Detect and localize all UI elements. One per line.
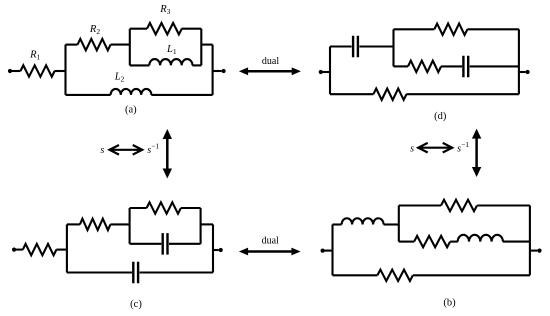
arrow: s to s^-1 (right)	[418, 143, 452, 153]
wire: bottom branch of (a)	[66, 94, 111, 96]
wire	[406, 93, 519, 95]
inductor L1	[149, 59, 192, 65]
inductor (middle branch of b)	[458, 235, 503, 242]
svg-text:R2: R2	[89, 24, 100, 36]
arrow: dual between (a) and (d)	[246, 70, 294, 73]
wire	[201, 44, 212, 46]
wire	[470, 65, 519, 67]
arrow: transform between (a) and (c)	[166, 137, 169, 171]
svg-text:(d): (d)	[434, 111, 447, 122]
resistor (series input of c)	[23, 244, 57, 255]
wire	[130, 64, 150, 66]
wire: R/C loop right edge	[200, 208, 202, 244]
wire	[321, 71, 330, 73]
wire	[14, 249, 23, 251]
wire: R3/L1 loop left edge	[129, 29, 131, 66]
resistor (bottom branch of d)	[373, 89, 406, 100]
svg-text:L2: L2	[114, 72, 125, 84]
wire: right rail of (a)	[212, 45, 214, 95]
svg-text:L1: L1	[166, 44, 177, 56]
arrow: transform between (d) and (b)	[475, 137, 478, 169]
wire	[192, 64, 201, 66]
wire	[323, 250, 333, 252]
resistor (in R/C loop of c)	[147, 202, 181, 213]
inductor (top branch of b)	[342, 218, 384, 224]
wire: right rail of (d)	[518, 29, 520, 94]
resistor (upper branch of b)	[441, 200, 477, 211]
wire	[111, 44, 130, 46]
wire	[330, 45, 352, 47]
wire: right rail of (c)	[212, 224, 214, 272]
resistor (upper branch of d)	[434, 24, 467, 35]
resistor (middle branch of b)	[414, 236, 450, 247]
terminal: left node of circuit (d)	[319, 70, 323, 74]
wire	[130, 243, 162, 245]
wire	[333, 223, 342, 225]
wire	[55, 70, 66, 72]
wire: left rail of (c)	[66, 224, 68, 272]
svg-text:(a): (a)	[125, 105, 137, 116]
wire	[384, 223, 399, 225]
wire	[399, 204, 441, 206]
resistor (bottom branch of b)	[377, 270, 412, 281]
wire	[530, 250, 538, 252]
svg-text:(c): (c)	[130, 299, 142, 310]
wire	[140, 271, 213, 273]
resistor R3	[147, 23, 182, 34]
wire	[213, 249, 219, 251]
wire	[130, 28, 147, 30]
wire	[394, 65, 409, 67]
wire: middle rail of (d)	[392, 29, 394, 66]
wire	[182, 28, 202, 30]
wire	[413, 274, 530, 276]
resistor R2	[78, 39, 111, 50]
svg-text:(b): (b)	[443, 298, 456, 309]
wire	[399, 241, 414, 243]
terminal: right node of circuit (c)	[219, 248, 223, 252]
wire: middle rail of (b)	[398, 206, 400, 242]
inductor L2	[111, 89, 152, 95]
svg-text:s−1: s−1	[147, 142, 159, 157]
svg-text:dual: dual	[262, 56, 279, 67]
wire	[56, 249, 67, 251]
terminal: left node of circuit (a)	[8, 69, 12, 73]
wire: bottom branch of (c)	[67, 271, 132, 273]
wire: left rail of (a)	[64, 45, 66, 95]
wire	[169, 243, 201, 245]
terminal: right node of circuit (d)	[526, 70, 530, 74]
wire	[394, 28, 435, 30]
wire: left rail of (b)	[331, 225, 333, 276]
resistor (top branch of c)	[80, 219, 110, 230]
arrow: s to s^-1 (left)	[110, 145, 143, 155]
wire	[66, 44, 78, 46]
wire: right rail of (b)	[529, 206, 531, 276]
wire	[151, 94, 212, 96]
wire: R/C loop left edge	[129, 208, 131, 244]
wire	[359, 45, 393, 47]
capacitor C1 (top left of d)	[353, 36, 358, 57]
wire	[110, 223, 129, 225]
wire	[181, 207, 201, 209]
wire	[441, 65, 462, 67]
resistor (middle branch of d)	[408, 61, 441, 72]
wire: R3/L1 loop right edge	[200, 29, 202, 66]
capacitor (bottom branch of c)	[133, 262, 138, 283]
wire	[130, 207, 147, 209]
capacitor C2 (middle branch of d)	[463, 56, 468, 77]
arrow: dual between (c) and (b)	[246, 250, 293, 253]
svg-text:dual: dual	[262, 236, 279, 247]
svg-text:s: s	[100, 145, 104, 156]
terminal: right node of circuit (a)	[222, 69, 226, 73]
terminal: left node of circuit (c)	[12, 248, 16, 252]
svg-text:R3: R3	[159, 4, 170, 16]
wire	[67, 223, 80, 225]
wire	[10, 70, 21, 72]
resistor R1	[21, 65, 55, 76]
wire: left rail of (d)	[329, 47, 331, 95]
wire	[450, 241, 458, 243]
terminal: right node of circuit (b)	[537, 249, 541, 253]
svg-text:s−1: s−1	[457, 140, 469, 155]
wire	[201, 223, 213, 225]
svg-text:R1: R1	[29, 49, 40, 61]
capacitor (in R/C loop of c)	[163, 233, 168, 255]
wire	[467, 28, 519, 30]
terminal: left node of circuit (b)	[321, 249, 325, 253]
wire	[213, 70, 222, 72]
svg-text:s: s	[410, 143, 414, 154]
wire	[503, 241, 530, 243]
wire	[519, 71, 526, 73]
wire	[477, 204, 530, 206]
wire	[330, 93, 373, 95]
wire: bottom branch of (b)	[333, 274, 378, 276]
